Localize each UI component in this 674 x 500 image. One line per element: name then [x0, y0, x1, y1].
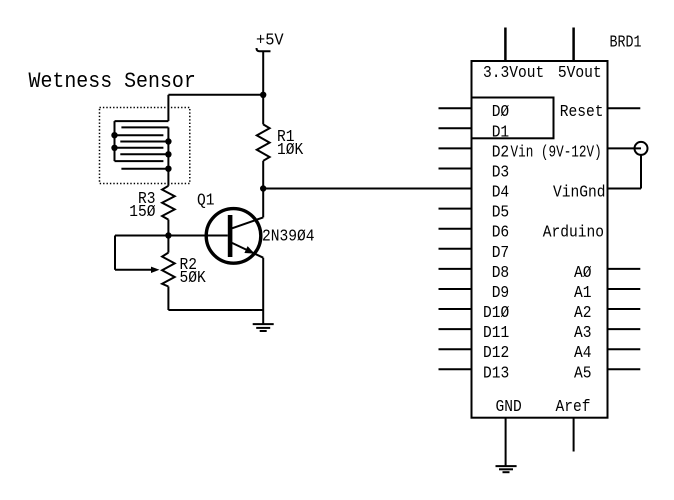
svg-text:AØ: AØ: [574, 263, 592, 282]
svg-text:D3: D3: [492, 162, 510, 181]
svg-text:2N39Ø4: 2N39Ø4: [262, 227, 315, 246]
svg-text:DØ: DØ: [492, 102, 510, 121]
svg-text:D12: D12: [483, 343, 509, 362]
svg-text:D6: D6: [492, 223, 510, 242]
svg-text:D1Ø: D1Ø: [483, 303, 509, 322]
svg-text:Arduino: Arduino: [543, 223, 604, 242]
svg-text:D5: D5: [492, 203, 510, 222]
svg-text:5Vout: 5Vout: [558, 63, 602, 82]
svg-text:D9: D9: [492, 283, 510, 302]
svg-text:D1: D1: [492, 122, 510, 141]
svg-text:Vin (9V-12V): Vin (9V-12V): [511, 142, 602, 161]
svg-text:5ØK: 5ØK: [180, 268, 206, 287]
svg-text:Aref: Aref: [556, 397, 591, 416]
svg-text:A2: A2: [574, 303, 592, 322]
svg-text:1ØK: 1ØK: [277, 140, 303, 159]
svg-text:A5: A5: [574, 363, 592, 382]
svg-text:A1: A1: [574, 283, 592, 302]
svg-text:D2: D2: [492, 142, 510, 161]
svg-text:D13: D13: [483, 363, 509, 382]
svg-text:15Ø: 15Ø: [129, 202, 155, 221]
svg-text:+5V: +5V: [256, 31, 284, 50]
svg-text:BRD1: BRD1: [610, 32, 642, 51]
svg-text:3.3Vout: 3.3Vout: [483, 63, 544, 82]
svg-text:D7: D7: [492, 243, 510, 262]
svg-text:Wetness Sensor: Wetness Sensor: [29, 68, 196, 94]
svg-text:D4: D4: [492, 183, 510, 202]
svg-text:GND: GND: [496, 397, 522, 416]
svg-text:Q1: Q1: [197, 191, 215, 210]
svg-text:D8: D8: [492, 263, 510, 282]
svg-text:A4: A4: [574, 343, 592, 362]
svg-text:D11: D11: [483, 323, 509, 342]
svg-text:A3: A3: [574, 323, 592, 342]
svg-text:VinGnd: VinGnd: [553, 183, 606, 202]
svg-text:Reset: Reset: [560, 102, 604, 121]
